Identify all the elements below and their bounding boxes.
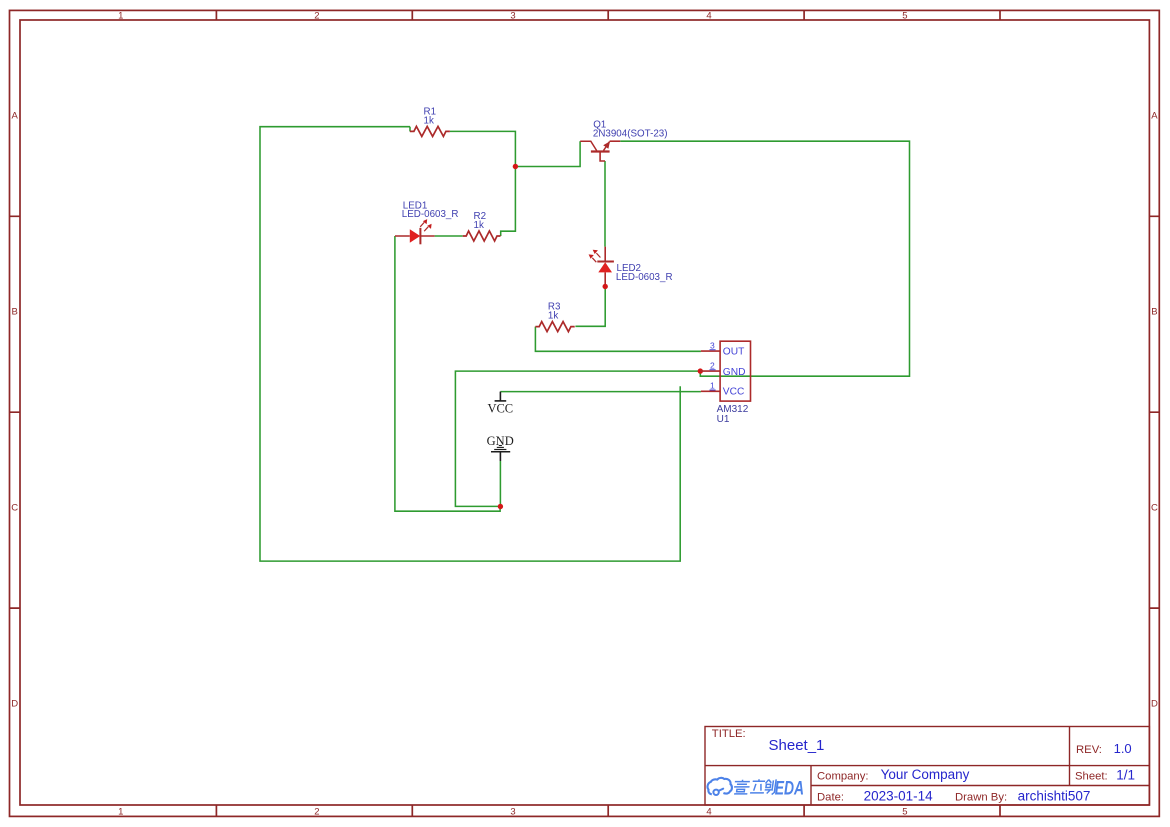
svg-text:U1: U1	[717, 414, 730, 425]
svg-text:Your Company: Your Company	[881, 767, 970, 782]
svg-text:LED-0603_R: LED-0603_R	[616, 272, 673, 283]
svg-text:C: C	[1151, 502, 1158, 513]
svg-text:2: 2	[314, 11, 319, 22]
svg-text:1: 1	[118, 807, 123, 818]
svg-text:A: A	[12, 110, 19, 121]
svg-text:archishti507: archishti507	[1018, 789, 1091, 804]
svg-text:C: C	[11, 502, 18, 513]
svg-text:3: 3	[710, 340, 715, 350]
svg-text:VCC: VCC	[487, 402, 513, 416]
svg-text:4: 4	[706, 807, 711, 818]
svg-text:Company:: Company:	[817, 770, 869, 782]
svg-text:REV:: REV:	[1076, 744, 1102, 756]
svg-text:A: A	[1151, 110, 1158, 121]
svg-text:OUT: OUT	[723, 347, 745, 358]
svg-text:2: 2	[710, 361, 715, 371]
svg-text:B: B	[1151, 307, 1157, 318]
svg-text:EDA: EDA	[775, 777, 804, 799]
svg-text:D: D	[1151, 698, 1158, 709]
svg-text:1k: 1k	[424, 116, 434, 127]
svg-text:Sheet_1: Sheet_1	[769, 737, 825, 754]
svg-text:Drawn By:: Drawn By:	[955, 792, 1007, 804]
svg-text:1k: 1k	[548, 311, 558, 322]
svg-text:B: B	[12, 307, 18, 318]
svg-text:TITLE:: TITLE:	[712, 728, 746, 740]
svg-text:LED-0603_R: LED-0603_R	[402, 209, 459, 220]
svg-text:VCC: VCC	[723, 387, 745, 398]
svg-text:2023-01-14: 2023-01-14	[864, 789, 934, 804]
svg-text:3: 3	[510, 11, 515, 22]
svg-text:1: 1	[118, 11, 123, 22]
svg-text:GND: GND	[723, 367, 746, 378]
svg-text:1.0: 1.0	[1114, 741, 1132, 756]
svg-text:2N3904(SOT-23): 2N3904(SOT-23)	[593, 129, 668, 140]
svg-text:1: 1	[710, 381, 715, 391]
svg-text:5: 5	[902, 11, 907, 22]
svg-text:1/1: 1/1	[1116, 767, 1135, 782]
svg-text:4: 4	[706, 11, 711, 22]
svg-text:3: 3	[510, 807, 515, 818]
svg-text:1k: 1k	[474, 220, 484, 231]
svg-text:Date:: Date:	[817, 791, 844, 803]
svg-text:2: 2	[314, 807, 319, 818]
svg-text:5: 5	[902, 807, 907, 818]
svg-text:Sheet:: Sheet:	[1075, 770, 1108, 782]
svg-text:D: D	[11, 698, 18, 709]
